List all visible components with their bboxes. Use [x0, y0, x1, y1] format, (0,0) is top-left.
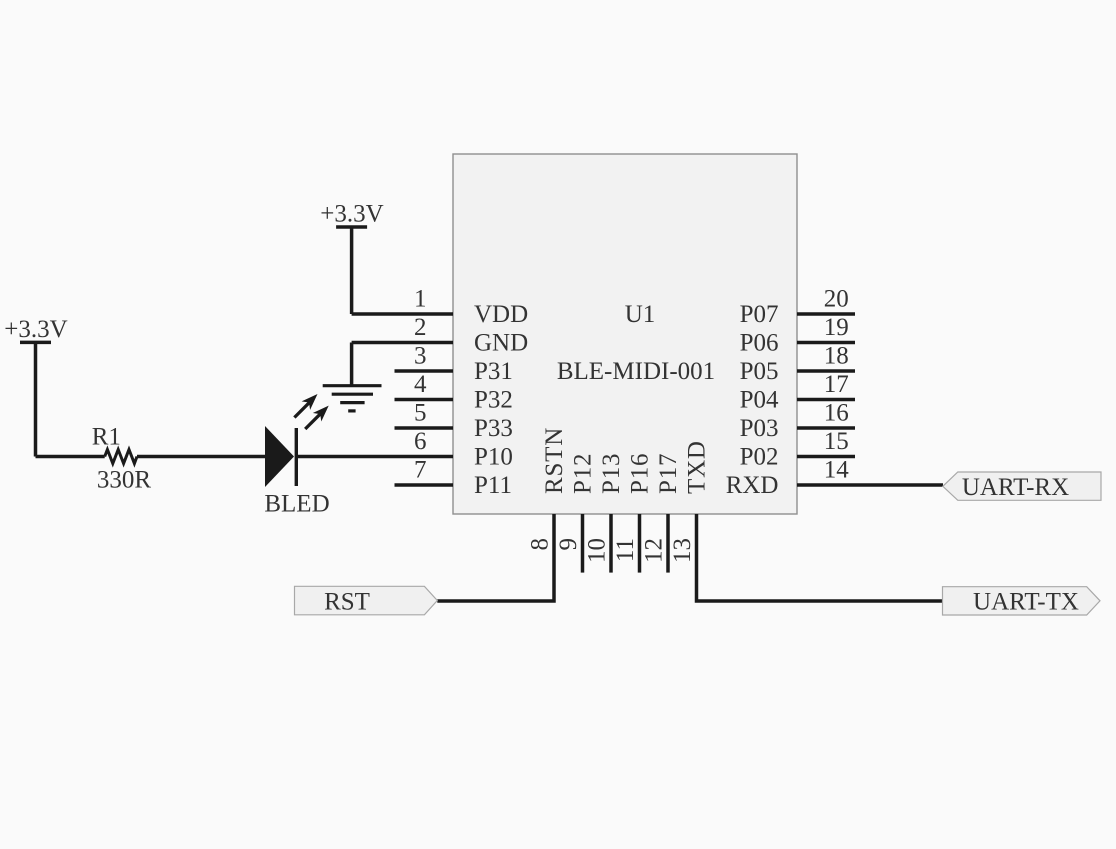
svg-text:4: 4 — [414, 371, 427, 398]
svg-text:P17: P17 — [655, 453, 682, 494]
svg-text:14: 14 — [824, 457, 850, 484]
svg-text:VDD: VDD — [474, 301, 528, 328]
svg-text:17: 17 — [824, 371, 849, 398]
svg-text:19: 19 — [824, 314, 849, 341]
svg-text:P07: P07 — [740, 301, 779, 328]
svg-text:P16: P16 — [627, 453, 654, 494]
wire pin 8 RSTN to net RST — [437, 514, 554, 601]
wire pin 9 stub — [581, 514, 585, 573]
net flag RST — [295, 586, 438, 615]
svg-text:330R: 330R — [97, 466, 152, 493]
net flag UART-RX — [943, 472, 1101, 501]
wire pin 18 stub — [797, 369, 855, 373]
wire pin 12 stub — [666, 514, 670, 573]
LED anode triangle — [265, 426, 294, 487]
svg-text:P32: P32 — [474, 387, 513, 414]
svg-text:1: 1 — [414, 286, 427, 313]
svg-text:6: 6 — [414, 428, 427, 455]
svg-text:P05: P05 — [740, 358, 779, 385]
svg-text:RXD: RXD — [726, 472, 779, 499]
wire pin 6 P10 to LED — [298, 455, 453, 459]
wire pin 19 stub — [797, 341, 855, 345]
svg-text:BLED: BLED — [264, 490, 329, 517]
ground symbol — [323, 343, 382, 411]
svg-text:RSTN: RSTN — [541, 427, 568, 494]
svg-text:P11: P11 — [474, 472, 512, 499]
svg-text:UART-TX: UART-TX — [973, 588, 1079, 615]
power symbol +3.3V at VDD — [320, 201, 383, 315]
svg-text:5: 5 — [414, 400, 427, 427]
svg-text:RST: RST — [324, 588, 370, 615]
wire pin 2 GND — [352, 341, 453, 345]
svg-text:+3.3V: +3.3V — [320, 201, 383, 228]
wire +3.3V to pin 1 — [350, 227, 354, 314]
wire pin 3 stub — [395, 369, 454, 373]
wire pin 10 stub — [609, 514, 613, 573]
resistor R1 — [92, 423, 152, 493]
wire pin 5 stub — [395, 426, 454, 430]
wire pin 20 stub — [797, 312, 855, 316]
svg-text:+3.3V: +3.3V — [4, 316, 67, 343]
wire +3.3V to R1 — [36, 455, 105, 459]
wire pin 13 TXD to net UART-TX — [697, 514, 943, 601]
svg-text:2: 2 — [414, 314, 427, 341]
svg-text:15: 15 — [824, 428, 849, 455]
svg-text:P06: P06 — [740, 330, 779, 357]
svg-text:GND: GND — [474, 330, 528, 357]
wire R1 to LED — [137, 455, 265, 459]
svg-text:18: 18 — [824, 343, 849, 370]
svg-text:P10: P10 — [474, 444, 513, 471]
svg-text:BLE-MIDI-001: BLE-MIDI-001 — [557, 358, 715, 385]
svg-text:R1: R1 — [92, 423, 121, 450]
wire +3.3V down to R1 row — [34, 342, 38, 456]
wire pin 1 VDD — [352, 312, 453, 316]
net flag UART-TX — [943, 587, 1101, 616]
svg-text:7: 7 — [414, 457, 427, 484]
IC U1 body — [453, 154, 797, 514]
svg-text:P31: P31 — [474, 358, 513, 385]
svg-text:P33: P33 — [474, 415, 513, 442]
svg-text:U1: U1 — [625, 301, 656, 328]
svg-text:20: 20 — [824, 286, 849, 313]
svg-text:P02: P02 — [740, 444, 779, 471]
svg-text:11: 11 — [612, 538, 639, 562]
svg-text:UART-RX: UART-RX — [962, 474, 1069, 501]
svg-text:9: 9 — [555, 538, 582, 551]
svg-text:8: 8 — [527, 538, 554, 551]
svg-text:3: 3 — [414, 343, 427, 370]
LED emission arrow 1 — [294, 402, 309, 417]
wire pin 11 stub — [638, 514, 642, 573]
svg-text:TXD: TXD — [684, 440, 711, 494]
svg-text:12: 12 — [641, 538, 668, 563]
wire pin 15 stub — [797, 455, 855, 459]
wire pin 16 stub — [797, 426, 855, 430]
wire pin 14 RXD to net UART-RX — [797, 483, 943, 487]
wire pin 7 stub — [395, 483, 454, 487]
LED emission arrow 2 — [305, 413, 321, 429]
svg-text:P12: P12 — [570, 453, 597, 494]
wire pin 17 stub — [797, 398, 855, 402]
LED BLED — [264, 394, 329, 517]
LED cathode bar — [295, 428, 298, 486]
svg-text:P13: P13 — [598, 453, 625, 494]
svg-text:10: 10 — [584, 538, 611, 563]
wire pin 4 stub — [395, 398, 454, 402]
wire GND down to ground — [350, 343, 354, 386]
power symbol +3.3V at R1 — [4, 316, 67, 457]
svg-text:P03: P03 — [740, 415, 779, 442]
svg-text:16: 16 — [824, 400, 849, 427]
svg-text:P04: P04 — [740, 387, 779, 414]
svg-text:13: 13 — [669, 538, 696, 563]
